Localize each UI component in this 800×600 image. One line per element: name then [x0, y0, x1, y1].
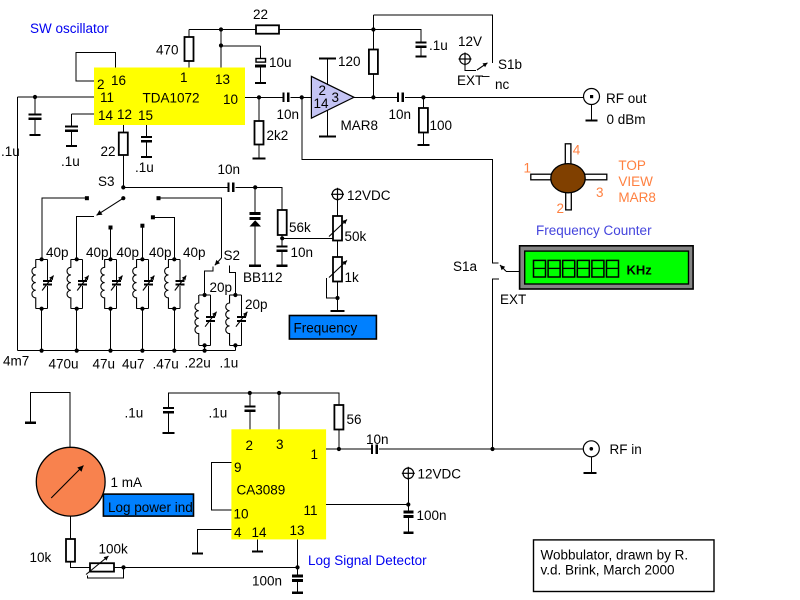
- switch S2: [215, 248, 240, 265]
- wire S3 to varactor: [123, 185, 282, 210]
- inductor-capacitor tank L4 C13 40p: [133, 245, 172, 311]
- resistor R2 22: [253, 7, 279, 34]
- svg-text:12V: 12V: [458, 34, 482, 49]
- svg-text:nc: nc: [495, 77, 510, 92]
- svg-text:12VDC: 12VDC: [418, 467, 462, 482]
- svg-text:10k: 10k: [30, 550, 52, 565]
- node inductor values: [3, 354, 238, 372]
- ground pin4: [192, 529, 231, 553]
- svg-text:12VDC: 12VDC: [347, 188, 391, 203]
- wire S1a EXT contact: [493, 279, 527, 449]
- wire pin9 to pin10 loop: [211, 463, 231, 511]
- wire tank to rail: [172, 309, 176, 353]
- ground RF out: [586, 105, 598, 121]
- inductor-capacitor tank L2 C11 40p: [67, 245, 109, 311]
- svg-text:1k: 1k: [345, 270, 360, 285]
- inductor-capacitor tank L3 C12 40p: [101, 245, 139, 311]
- node Log power ind box: [103, 494, 193, 516]
- capacitor C5 10n: [277, 92, 300, 122]
- wire S3 contact 5 to tank L5: [151, 215, 174, 259]
- switch S1b: [457, 57, 522, 92]
- op-amp U3 CA3089: [231, 429, 326, 540]
- svg-text:S1b: S1b: [498, 57, 522, 72]
- wire pin1 to RF in: [326, 447, 583, 451]
- potentiometer R12 100k: [86, 542, 128, 575]
- wire tank to rail: [75, 309, 79, 353]
- svg-text:S1a: S1a: [453, 259, 478, 274]
- svg-text:EXT: EXT: [500, 292, 526, 307]
- svg-text:Frequency Counter: Frequency Counter: [536, 223, 652, 238]
- capacitor C17 .1u: [125, 406, 175, 434]
- wire S2 throw right to tank L7: [230, 266, 236, 295]
- resistor R1 470: [156, 30, 194, 68]
- svg-text:14: 14: [98, 108, 114, 123]
- svg-text:.1u: .1u: [220, 356, 239, 371]
- svg-text:16: 16: [111, 73, 126, 88]
- svg-text:.1u: .1u: [429, 38, 448, 53]
- resistor R6 22: [101, 125, 128, 187]
- power 12VDC detector: [403, 468, 414, 479]
- inductor-capacitor tank L1 C10 40p: [32, 245, 69, 311]
- wire pin11 to supply node: [326, 502, 410, 506]
- wire 1k wiper loop: [327, 278, 340, 300]
- svg-text:1: 1: [524, 161, 532, 176]
- svg-text:.47u: .47u: [153, 357, 179, 372]
- svg-text:.1u: .1u: [1, 144, 20, 159]
- wire top rail: [189, 27, 376, 31]
- connector RF in: [583, 441, 641, 457]
- svg-text:10n: 10n: [277, 107, 300, 122]
- wire S3 contact 6 to S2: [157, 196, 222, 258]
- wire pin13 branch: [219, 30, 261, 68]
- op-amp U1 TDA1072: [94, 68, 245, 126]
- svg-text:Log Signal Detector: Log Signal Detector: [308, 553, 427, 568]
- wire MAR8 output: [354, 95, 584, 99]
- svg-text:13: 13: [215, 72, 230, 87]
- switch S3: [97, 174, 126, 215]
- ground 1k bottom: [331, 282, 345, 312]
- wire S3 contact 3 to tank L3: [109, 226, 113, 260]
- svg-text:1 mA: 1 mA: [111, 475, 143, 490]
- ground RF in: [584, 457, 597, 473]
- svg-text:EXT: EXT: [457, 73, 483, 88]
- power 12V: [460, 54, 471, 65]
- svg-text:10n: 10n: [389, 107, 412, 122]
- connector RF out: [584, 89, 647, 128]
- svg-text:47u: 47u: [93, 357, 116, 372]
- svg-text:MAR8: MAR8: [618, 190, 656, 205]
- svg-text:SW oscillator: SW oscillator: [30, 21, 109, 36]
- svg-text:0 dBm: 0 dBm: [607, 112, 646, 127]
- resistor R7 56k: [278, 210, 311, 246]
- resistor R4 2k2: [253, 97, 289, 158]
- svg-text:15: 15: [138, 108, 153, 123]
- wire S3 contact 1 to tank L1: [42, 196, 89, 259]
- power 12VDC tuning: [332, 189, 343, 200]
- ground pin14: [252, 539, 263, 551]
- diode D1 BB112: [243, 187, 283, 285]
- svg-text:14: 14: [252, 525, 268, 540]
- svg-text:12: 12: [117, 107, 132, 122]
- node title info box: [534, 540, 715, 592]
- resistor R10 56: [334, 405, 361, 451]
- resistor R5 100: [417, 97, 452, 145]
- wire pin16 to pin2 loop: [76, 53, 116, 82]
- wire pin11 left: [18, 95, 95, 99]
- svg-text:10n: 10n: [218, 162, 241, 177]
- svg-text:40p: 40p: [86, 245, 109, 260]
- resistor R11 10k: [30, 516, 91, 567]
- wire detector output to pin13: [114, 565, 300, 569]
- ground MAR8 top stub: [319, 59, 336, 86]
- svg-text:4m7: 4m7: [3, 354, 29, 369]
- potentiometer R9 1k: [329, 241, 359, 286]
- wire pin3 feed: [278, 393, 280, 429]
- wire pin14: [71, 113, 94, 115]
- svg-text:11: 11: [304, 503, 318, 518]
- wire MAR8 input bias to S1a: [302, 97, 499, 263]
- capacitor C9 10n: [277, 245, 313, 266]
- svg-text:120: 120: [338, 54, 361, 69]
- svg-text:RF in: RF in: [610, 442, 642, 457]
- svg-text:CA3089: CA3089: [237, 483, 286, 498]
- capacitor C6 10n: [389, 92, 412, 122]
- node Frequency label box: [289, 316, 376, 340]
- svg-text:1: 1: [180, 70, 188, 85]
- wire tank ground rail: [18, 350, 236, 352]
- svg-text:4: 4: [573, 143, 581, 158]
- svg-text:470u: 470u: [49, 357, 79, 372]
- op-amp U2 MAR8: [311, 76, 378, 133]
- wire tank L6 to rail: [203, 345, 207, 352]
- svg-text:.22u: .22u: [185, 356, 211, 371]
- transistor U2 package top view MAR8: [524, 143, 656, 217]
- resistor R3 120: [338, 50, 378, 75]
- svg-text:S2: S2: [224, 248, 241, 263]
- svg-text:20p: 20p: [210, 280, 233, 295]
- inductor-capacitor tank L6 C15 20p: [195, 280, 232, 348]
- svg-text:3: 3: [276, 437, 284, 452]
- svg-text:40p: 40p: [183, 245, 206, 260]
- capacitor C21 100n: [252, 567, 303, 592]
- svg-text:.1u: .1u: [61, 154, 80, 169]
- svg-text:14: 14: [314, 96, 330, 111]
- svg-text:TOP: TOP: [618, 158, 646, 173]
- svg-text:10: 10: [223, 92, 238, 107]
- svg-text:2: 2: [557, 201, 565, 216]
- svg-text:9: 9: [234, 460, 242, 475]
- wire S3 contact 4 to tank L4: [140, 224, 144, 260]
- capacitor C18 .1u: [209, 393, 256, 429]
- svg-text:10n: 10n: [366, 432, 389, 447]
- svg-text:TDA1072: TDA1072: [143, 91, 200, 106]
- svg-text:KHz: KHz: [627, 263, 653, 278]
- wire 12V feed: [371, 15, 492, 100]
- svg-text:MAR8: MAR8: [341, 118, 379, 133]
- wire pin13 down: [297, 539, 299, 567]
- switch S1a: [453, 259, 520, 274]
- wire 56k to 50k wiper: [282, 237, 333, 239]
- svg-text:.1u: .1u: [135, 160, 154, 175]
- capacitor C3 10u: [255, 46, 292, 83]
- wire left vertical bus: [17, 97, 19, 351]
- capacitor C4 .1u: [373, 30, 447, 57]
- svg-text:1: 1: [311, 447, 319, 462]
- svg-text:56k: 56k: [289, 220, 311, 235]
- svg-text:100k: 100k: [99, 542, 129, 557]
- svg-text:22: 22: [253, 7, 268, 22]
- svg-text:56: 56: [347, 412, 362, 427]
- svg-text:3: 3: [332, 90, 340, 105]
- svg-text:20p: 20p: [245, 297, 268, 312]
- svg-text:11: 11: [100, 90, 114, 105]
- svg-text:2: 2: [246, 438, 254, 453]
- wire 12VDC to node: [407, 479, 409, 511]
- svg-text:100n: 100n: [417, 508, 447, 523]
- svg-text:RF out: RF out: [606, 91, 647, 106]
- svg-text:10n: 10n: [291, 245, 314, 260]
- svg-text:Wobbulator, drawn by R.: Wobbulator, drawn by R.: [541, 548, 689, 563]
- capacitor C8 10n: [218, 162, 241, 192]
- wire S2 throw left to tank L6: [205, 266, 214, 295]
- svg-text:40p: 40p: [149, 245, 172, 260]
- svg-text:100n: 100n: [252, 574, 282, 589]
- svg-text:100: 100: [430, 118, 453, 133]
- wire 100k wiper loop: [88, 565, 126, 578]
- potentiometer R8 50k: [329, 200, 367, 244]
- ground meter top: [25, 392, 70, 447]
- ground MAR8 bottom stub: [319, 110, 336, 137]
- inductor-capacitor tank L5 C14 40p: [165, 245, 206, 311]
- svg-text:50k: 50k: [345, 229, 367, 244]
- svg-text:40p: 40p: [46, 245, 69, 260]
- svg-text:2k2: 2k2: [267, 128, 289, 143]
- wire pin10 output: [245, 95, 311, 99]
- svg-text:13: 13: [290, 523, 305, 538]
- svg-text:470: 470: [156, 43, 179, 58]
- svg-text:10u: 10u: [269, 55, 292, 70]
- svg-text:v.d. Brink, March 2000: v.d. Brink, March 2000: [541, 563, 675, 578]
- wire tank L7 to rail: [234, 345, 236, 350]
- svg-text:40p: 40p: [117, 245, 140, 260]
- svg-text:.1u: .1u: [125, 406, 144, 421]
- wire CA3089 supply rail: [169, 391, 339, 408]
- svg-text:S3: S3: [98, 174, 115, 189]
- svg-text:10: 10: [234, 507, 249, 522]
- capacitor C19 10n: [366, 432, 389, 454]
- wire tank to rail: [140, 309, 144, 353]
- svg-text:Log power ind: Log power ind: [108, 500, 193, 515]
- svg-text:BB112: BB112: [243, 270, 283, 285]
- capacitor C20 100n: [403, 508, 446, 533]
- svg-text:VIEW: VIEW: [618, 174, 653, 189]
- svg-text:Frequency: Frequency: [294, 321, 358, 336]
- svg-text:22: 22: [101, 144, 116, 159]
- svg-text:–: –: [482, 68, 490, 83]
- svg-text:.1u: .1u: [209, 406, 228, 421]
- svg-text:3: 3: [596, 185, 604, 200]
- display frequency counter: [520, 246, 694, 289]
- inductor-capacitor tank L7 C16 20p: [226, 293, 268, 348]
- capacitor C2 .1u: [61, 114, 80, 169]
- meter M1 1 mA: [36, 447, 142, 516]
- svg-text:4: 4: [234, 525, 242, 540]
- svg-text:4u7: 4u7: [122, 357, 145, 372]
- wire tank to rail: [108, 309, 112, 353]
- capacitor C1 .1u: [1, 97, 42, 159]
- wire S3 contact 2 to tank L2: [77, 217, 94, 260]
- wire tank to rail: [40, 309, 44, 353]
- capacitor C7 .1u: [135, 125, 154, 175]
